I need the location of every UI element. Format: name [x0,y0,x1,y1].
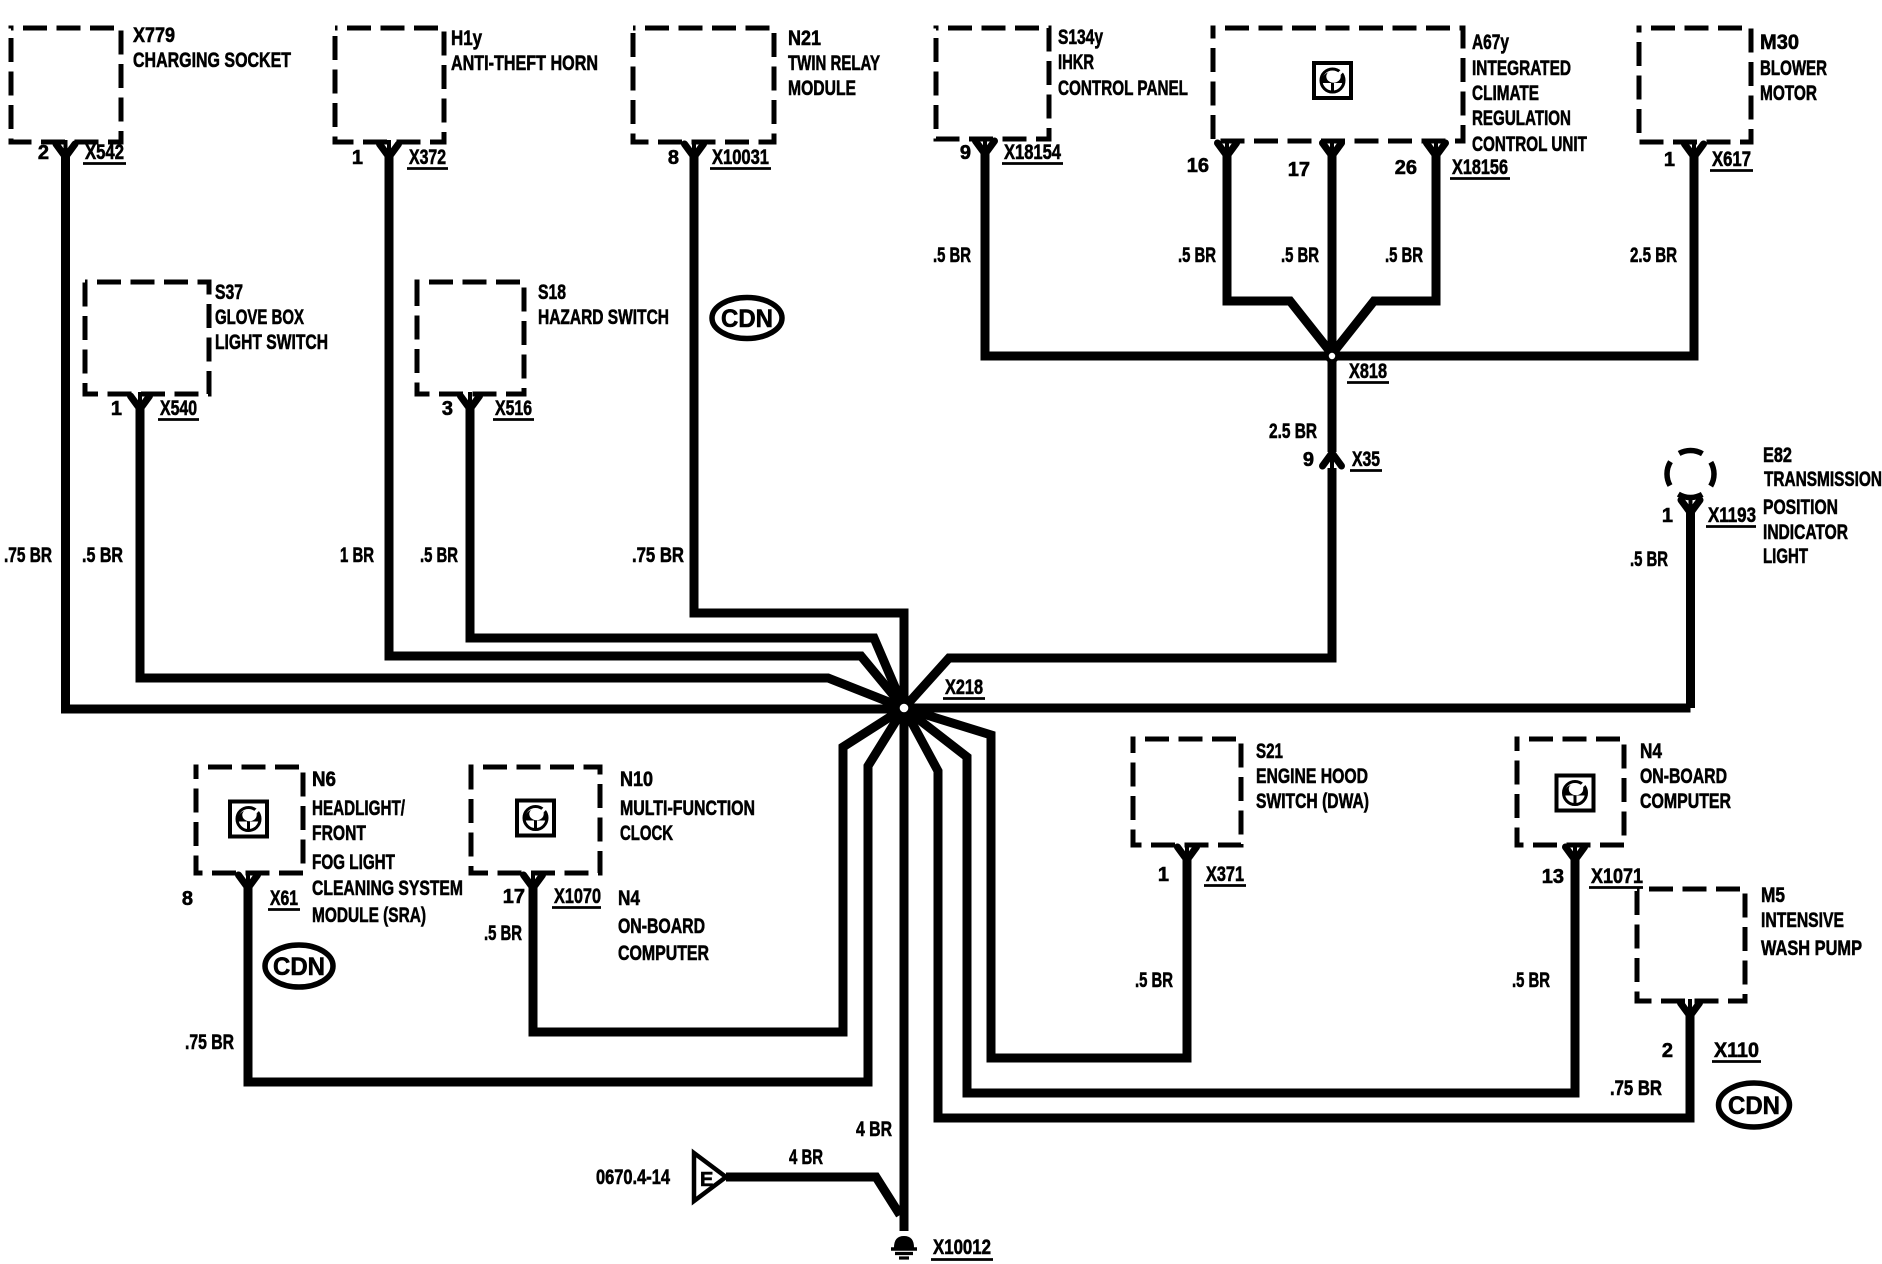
svg-text:COMPUTER: COMPUTER [618,942,709,965]
wire A67y pin16 to X818 [1227,149,1332,354]
wire E triangle to ground wire [726,1177,900,1215]
fan icon inside N4 [0,0,1,1]
svg-text:.5 BR: .5 BR [1385,244,1423,267]
component box S18 hazard switch [417,282,524,394]
wire X516 to node X218 [470,402,904,708]
svg-text:.5 BR: .5 BR [1512,969,1550,992]
wire node X218 to M5 connector X110 [904,708,1690,1118]
svg-text:BLOWER: BLOWER [1760,57,1827,80]
svg-text:8: 8 [668,147,679,169]
CDN marker oval 1 [712,298,782,339]
connector X10031 fork [692,140,696,153]
fan icon use N10 [517,801,554,836]
component box S37 glove box light switch [85,282,209,394]
wire S134y-X818-M30 horizontal [985,147,1694,356]
CDN marker oval 3 [1719,1083,1790,1127]
wire node X218 to E82 [904,511,1691,708]
svg-text:1: 1 [111,398,122,420]
svg-text:17: 17 [1288,159,1310,181]
svg-text:INDICATOR: INDICATOR [1763,521,1848,544]
svg-text:HEADLIGHT/: HEADLIGHT/ [312,797,405,820]
svg-text:2: 2 [1662,1040,1673,1062]
svg-text:MULTI-FUNCTION: MULTI-FUNCTION [620,797,755,820]
component box S21 engine hood switch [1133,739,1241,845]
svg-text:X18156: X18156 [1452,156,1508,179]
svg-text:WASH PUMP: WASH PUMP [1761,937,1862,960]
wire X540 to node X218 [140,402,904,708]
svg-text:8: 8 [182,888,193,910]
svg-text:MODULE: MODULE [788,77,856,100]
svg-text:X516: X516 [495,397,532,420]
component box N6 headlight/fog light cleaning module [196,767,303,873]
svg-text:N21: N21 [788,27,821,50]
svg-text:X10012: X10012 [933,1236,991,1259]
connector X371 fork [1185,843,1189,856]
svg-text:E82: E82 [1763,444,1792,467]
connector fork pin 17 [1330,139,1334,152]
connector X35 fork [1330,455,1334,477]
svg-text:.5 BR: .5 BR [1630,548,1668,571]
svg-text:3: 3 [442,398,453,420]
connector X1070 fork [531,871,535,884]
connector fork pin 16 [1225,139,1229,152]
svg-text:HAZARD SWITCH: HAZARD SWITCH [538,306,669,329]
svg-text:ON-BOARD: ON-BOARD [1640,765,1727,788]
svg-text:9: 9 [1303,449,1314,471]
ground symbol X10012 [894,1236,914,1248]
svg-text:M30: M30 [1760,31,1799,54]
connector X1071 fork [1573,843,1577,856]
svg-text:.5 BR: .5 BR [420,544,458,567]
svg-text:2.5 BR: 2.5 BR [1630,244,1677,267]
svg-text:1: 1 [1664,149,1675,171]
svg-text:M5: M5 [1761,884,1785,907]
svg-text:FOG LIGHT: FOG LIGHT [312,851,395,874]
svg-text:CLEANING SYSTEM: CLEANING SYSTEM [312,877,463,900]
wire X372 to node X218 [389,150,904,708]
svg-text:TWIN RELAY: TWIN RELAY [788,52,880,75]
svg-text:FRONT: FRONT [312,822,366,845]
connector fork pin 26 [1434,139,1438,152]
svg-text:MOTOR: MOTOR [1760,82,1817,105]
svg-text:H1y: H1y [451,27,482,50]
svg-text:.5 BR: .5 BR [1178,244,1216,267]
wire A67y pin26 to X818 [1332,149,1436,354]
svg-text:SWITCH (DWA): SWITCH (DWA) [1256,790,1369,813]
wire node X218 to N4 connector X1071 [904,708,1575,1093]
svg-text:2.5 BR: 2.5 BR [1269,420,1317,443]
svg-text:ENGINE HOOD: ENGINE HOOD [1256,765,1368,788]
svg-text:S18: S18 [538,281,566,304]
svg-text:CDN: CDN [1728,1092,1780,1120]
svg-text:26: 26 [1395,157,1417,179]
component box N4 on-board computer [1517,739,1624,845]
wire X542 to node X218 [66,150,900,709]
fan icon inside N6 [0,0,1,1]
svg-text:X542: X542 [85,141,124,164]
connector X110 fork [1688,999,1692,1012]
connector X61 fork [246,871,250,884]
svg-text:N4: N4 [618,887,640,910]
svg-text:X779: X779 [133,24,175,47]
wire X35 to node X218 [904,468,1332,708]
svg-text:1 BR: 1 BR [340,544,374,567]
svg-text:N10: N10 [620,768,653,791]
svg-text:CONTROL UNIT: CONTROL UNIT [1472,133,1587,156]
wire node X218 to N10 connector X1070 [533,708,904,1032]
svg-text:INTEGRATED: INTEGRATED [1472,57,1571,80]
fan icon use N6 [230,802,267,837]
page reference E triangle [694,1153,726,1201]
svg-text:X10031: X10031 [712,146,769,169]
component box N10 multi-function clock [471,767,600,873]
svg-text:13: 13 [1542,866,1564,888]
svg-text:4 BR: 4 BR [789,1146,823,1169]
svg-text:TRANSMISSION: TRANSMISSION [1764,468,1882,491]
svg-text:POSITION: POSITION [1763,496,1838,519]
svg-text:S134y: S134y [1058,26,1103,49]
svg-text:17: 17 [503,886,525,908]
fan icon use A67y [1314,63,1351,98]
svg-text:X1193: X1193 [1708,504,1756,527]
connector X516 fork [468,392,472,405]
svg-text:LIGHT: LIGHT [1763,545,1808,568]
component box H1y anti-theft horn [335,28,444,142]
svg-text:1: 1 [1158,864,1169,886]
svg-text:INTENSIVE: INTENSIVE [1761,909,1844,932]
component box A67y integrated climate regulation control unit [1213,28,1463,141]
svg-text:A67y: A67y [1472,31,1509,54]
svg-text:CHARGING SOCKET: CHARGING SOCKET [133,49,291,72]
svg-text:2: 2 [38,142,49,164]
svg-text:COMPUTER: COMPUTER [1640,790,1731,813]
svg-text:N4: N4 [1640,740,1662,763]
svg-text:X540: X540 [160,397,197,420]
svg-text:.5 BR: .5 BR [1135,969,1173,992]
component E82 transmission position indicator light (dashed circle) [1667,451,1714,498]
svg-text:N6: N6 [312,768,336,791]
svg-text:REGULATION: REGULATION [1472,107,1571,130]
junction X818 [1327,351,1337,361]
wire X10031 through node X218 to ground [694,150,904,1231]
connector X542 fork [64,140,68,153]
svg-text:X1070: X1070 [554,885,601,908]
svg-text:E: E [700,1169,713,1191]
fan icon inside A67y [0,0,1,1]
component box M30 blower motor [1639,28,1751,142]
svg-text:1: 1 [1662,505,1673,527]
svg-text:CDN: CDN [273,953,325,981]
svg-text:.75 BR: .75 BR [185,1031,234,1054]
fan icon use N4 [1557,776,1594,811]
component box S134y IHKR control panel [936,28,1049,139]
svg-text:X371: X371 [1206,863,1244,886]
connector X540 fork [138,392,142,405]
CDN marker oval 2 [265,945,333,987]
svg-text:S37: S37 [215,281,243,304]
wire node X218 to N6 connector X61 [248,708,904,1082]
svg-text:X617: X617 [1712,148,1751,171]
component box N21 twin relay module [633,28,774,142]
svg-text:ANTI-THEFT HORN: ANTI-THEFT HORN [451,52,598,75]
svg-text:LIGHT SWITCH: LIGHT SWITCH [215,331,328,354]
connector X617 fork [1692,140,1696,153]
svg-text:CONTROL PANEL: CONTROL PANEL [1058,77,1188,100]
connector X1193 fork [1689,496,1693,509]
svg-text:X35: X35 [1352,448,1380,471]
svg-text:X818: X818 [1349,360,1387,383]
wire A67y pin17 to X818 to X35 [1328,149,1337,452]
svg-text:.5 BR: .5 BR [484,922,522,945]
svg-text:X372: X372 [409,146,446,169]
svg-text:.5 BR: .5 BR [1281,244,1319,267]
svg-text:.5 BR: .5 BR [933,244,971,267]
svg-text:CDN: CDN [721,305,773,333]
connector X372 fork [387,140,391,153]
node X218 junction [894,698,915,719]
svg-text:X110: X110 [1714,1039,1759,1062]
svg-text:CLIMATE: CLIMATE [1472,82,1539,105]
svg-text:CLOCK: CLOCK [620,822,673,845]
svg-text:MODULE (SRA): MODULE (SRA) [312,904,426,927]
wire node X218 to S21 connector X371 [904,708,1187,1058]
svg-text:S21: S21 [1256,740,1283,763]
svg-text:.75 BR: .75 BR [1610,1077,1662,1100]
svg-text:X1071: X1071 [1591,865,1643,888]
svg-text:X218: X218 [945,676,983,699]
connector X18154 fork [983,137,987,150]
fan icon inside N10 [0,0,1,1]
svg-text:9: 9 [960,142,971,164]
component box X779 charging socket [11,28,121,142]
svg-text:16: 16 [1187,155,1209,177]
svg-text:.5 BR: .5 BR [82,544,123,567]
svg-text:.75 BR: .75 BR [632,544,684,567]
svg-text:IHKR: IHKR [1058,51,1094,74]
svg-text:X18154: X18154 [1004,141,1061,164]
svg-text:1: 1 [352,147,363,169]
svg-text:GLOVE BOX: GLOVE BOX [215,306,304,329]
svg-text:X61: X61 [270,887,298,910]
svg-text:.75 BR: .75 BR [4,544,52,567]
svg-text:ON-BOARD: ON-BOARD [618,915,705,938]
svg-text:4 BR: 4 BR [856,1118,892,1141]
component box M5 intensive wash pump [1637,889,1745,1001]
svg-text:0670.4-14: 0670.4-14 [596,1166,670,1189]
